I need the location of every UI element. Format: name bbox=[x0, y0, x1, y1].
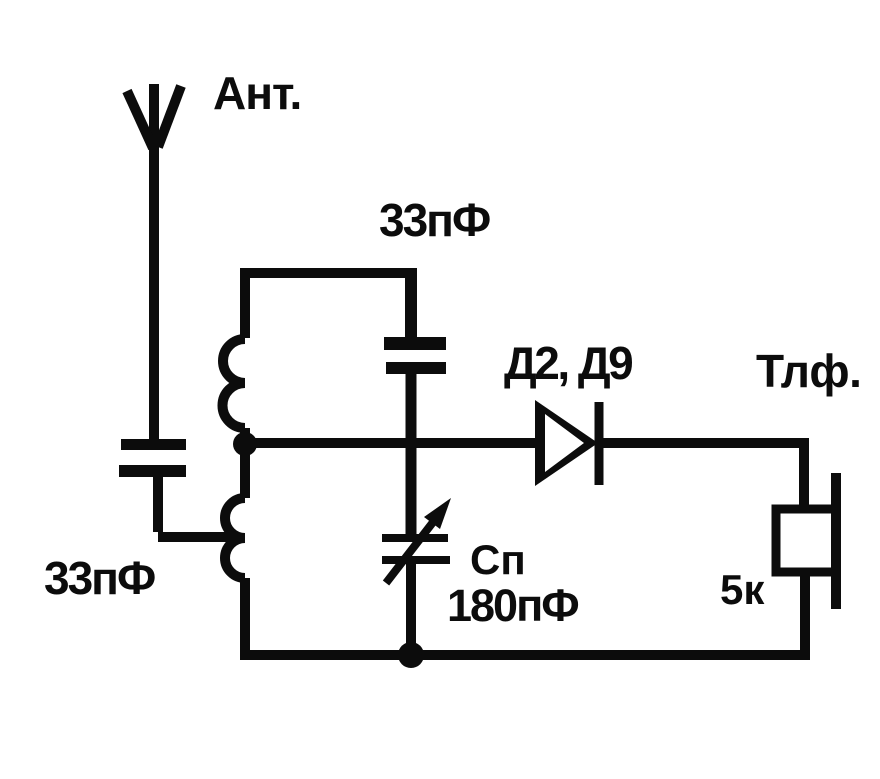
svg-text:33пФ: 33пФ bbox=[379, 194, 490, 246]
svg-text:180пФ: 180пФ bbox=[447, 580, 578, 631]
svg-text:5к: 5к bbox=[720, 566, 765, 613]
svg-text:Ант.: Ант. bbox=[213, 67, 301, 119]
svg-text:Тлф.: Тлф. bbox=[756, 345, 861, 397]
svg-text:33пФ: 33пФ bbox=[44, 552, 155, 604]
svg-text:Д2, Д9: Д2, Д9 bbox=[504, 337, 632, 389]
svg-text:Сп: Сп bbox=[470, 536, 526, 583]
